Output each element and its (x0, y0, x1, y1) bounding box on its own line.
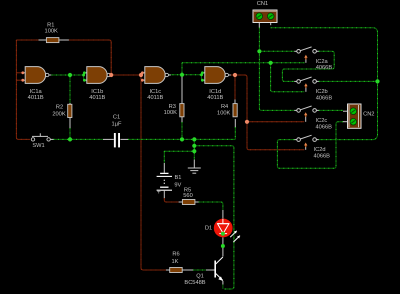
svg-text:B1: B1 (175, 175, 182, 181)
svg-text:4011B: 4011B (28, 95, 44, 101)
svg-text:IC2b: IC2b (316, 89, 328, 95)
svg-text:4066B: 4066B (316, 65, 333, 71)
svg-text:100K: 100K (217, 110, 230, 116)
svg-text:100K: 100K (45, 28, 58, 34)
svg-text:D1: D1 (205, 226, 212, 232)
svg-text:200K: 200K (52, 112, 65, 118)
svg-text:IC2d: IC2d (314, 147, 326, 153)
svg-text:R4: R4 (221, 104, 228, 110)
svg-text:4011B: 4011B (147, 95, 163, 101)
svg-text:SW1: SW1 (32, 143, 44, 149)
svg-text:4066B: 4066B (314, 154, 331, 160)
svg-text:IC2a: IC2a (316, 59, 329, 65)
svg-text:BC548B: BC548B (184, 280, 205, 286)
svg-text:4066B: 4066B (316, 95, 333, 101)
svg-text:1K: 1K (172, 259, 179, 265)
svg-text:R6: R6 (172, 252, 179, 258)
svg-text:4066B: 4066B (316, 124, 333, 130)
svg-text:4011B: 4011B (89, 95, 105, 101)
svg-text:560: 560 (183, 193, 193, 199)
svg-text:9V: 9V (174, 182, 181, 188)
svg-text:CN1: CN1 (257, 1, 268, 7)
svg-text:CN2: CN2 (363, 112, 374, 118)
svg-text:R2: R2 (56, 105, 63, 111)
svg-text:Q1: Q1 (196, 274, 204, 280)
svg-text:4011B: 4011B (207, 95, 223, 101)
svg-text:100K: 100K (164, 110, 177, 116)
svg-text:+: + (157, 189, 161, 196)
svg-text:IC2c: IC2c (316, 118, 328, 124)
svg-text:1µF: 1µF (112, 121, 122, 127)
svg-text:C1: C1 (113, 114, 120, 120)
